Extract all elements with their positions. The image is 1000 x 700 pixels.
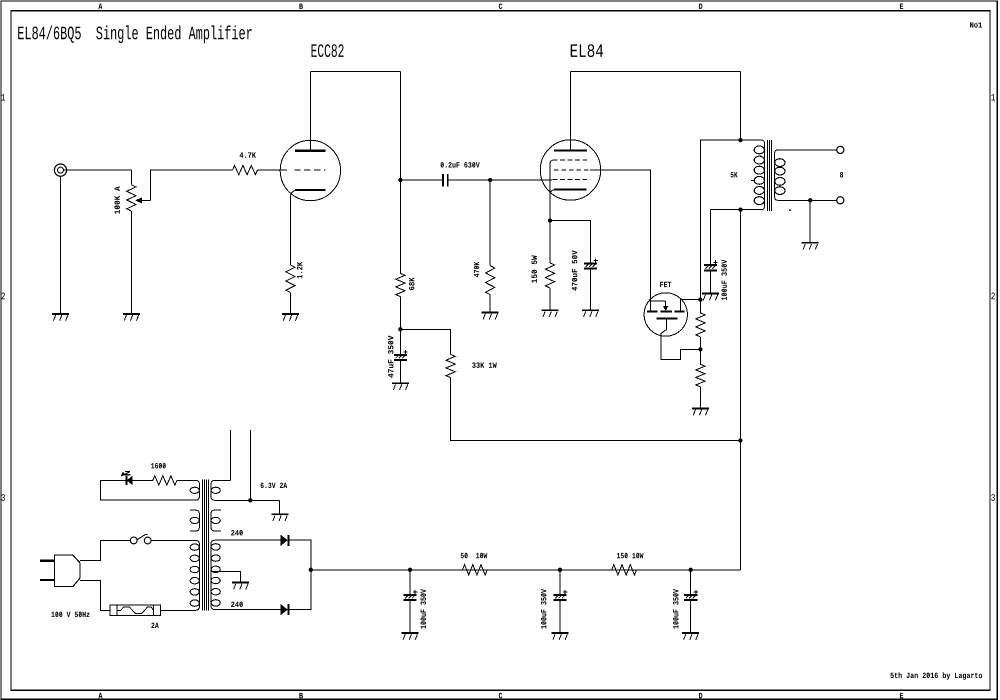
wire 470K top — [489, 180, 491, 266]
unused winding left bracket — [190, 510, 199, 531]
fuse 2A — [110, 605, 160, 616]
wire source node to lower resistor — [699, 349, 701, 364]
OPT primary winding loops — [754, 146, 764, 205]
wire 68K to decouple node — [399, 297, 401, 330]
wire filter cap 1 to ground — [409, 601, 411, 633]
wire EL84 cathode lead curve — [550, 190, 554, 194]
wire 1.2K to ground — [289, 293, 291, 314]
OPT primary tap tick — [751, 180, 755, 182]
capacitor 100uF 350V (filter 3) — [684, 590, 698, 600]
pilot circuit left rail — [101, 480, 191, 500]
wire fuse to PT primary — [160, 609, 195, 611]
transistor FET — [644, 293, 687, 336]
wire secondary to ground — [809, 200, 811, 243]
label 470uF 50V — [572, 250, 578, 291]
wire HV center tap — [211, 571, 241, 582]
wire heater lead A up — [230, 430, 232, 480]
heater winding 6.3V bracket — [211, 480, 280, 500]
label 6.3V 2A — [261, 483, 288, 489]
wire ECC82 anode up — [309, 72, 311, 151]
PT core — [202, 480, 208, 611]
PT primary winding loops — [190, 544, 199, 606]
wire EL84 anode up — [570, 72, 572, 151]
EL84 g2 (dashed) — [554, 169, 590, 171]
wire 100uF to ground — [709, 271, 711, 293]
wire cathode node to 470uF — [550, 221, 591, 264]
wire node to 47uF — [399, 329, 401, 354]
ground (pot) — [123, 314, 140, 321]
wire 68K top — [399, 180, 401, 273]
potentiometer 100K A — [127, 185, 151, 211]
pilot winding loop — [190, 487, 199, 493]
ground (jack) — [52, 314, 69, 321]
wire FET source path — [661, 319, 700, 360]
wire ECC82 cathode lead — [290, 190, 295, 265]
resistor FET lower — [696, 364, 705, 387]
label 5K — [731, 172, 738, 177]
wire pot bottom to ground — [130, 211, 132, 314]
node: filter cap 1 — [408, 568, 412, 572]
title — [18, 25, 252, 43]
ground (filter 3) — [682, 633, 699, 640]
label 100uF 350V (filter 1) — [421, 589, 427, 629]
wire B+ rail — [311, 569, 741, 571]
label 240 top — [231, 530, 243, 536]
ECC82 plate — [295, 149, 326, 151]
wire wiper up and right to 4.7K — [151, 170, 233, 200]
resistor 1.2K — [286, 265, 295, 293]
wire jack to ground — [60, 176, 62, 314]
wire anode top run right — [571, 71, 741, 73]
node: filter cap 2 — [558, 568, 562, 572]
date note — [890, 672, 982, 680]
label 100 V 50Hz — [51, 612, 89, 618]
wire heater to ground — [279, 500, 281, 514]
label EL84 — [571, 44, 603, 57]
ground (150 5W) — [542, 310, 559, 317]
resistor FET upper — [696, 313, 705, 337]
wire plug top to switch — [80, 540, 130, 560]
resistor 1600 — [153, 476, 177, 485]
capacitor 100uF 350V (B+) — [704, 260, 718, 270]
wire jack to pot top — [64, 169, 132, 171]
ECC82 grid (dashed) — [294, 169, 325, 171]
capacitor 0.2uF 630V — [443, 174, 448, 186]
wire filter cap 3 to ground — [690, 601, 692, 633]
capacitor 100uF 350V (filter 1) — [404, 590, 418, 600]
wire 150 5W to ground — [549, 288, 551, 310]
wire 470K to ground — [489, 295, 491, 313]
wire decouple node to 33K — [400, 329, 450, 354]
wire drain node to B+ (OPT top) — [700, 140, 740, 300]
label 47uF 350V — [388, 336, 394, 378]
HV winding loops — [211, 544, 220, 606]
capacitor 470uF 50V — [584, 259, 598, 269]
heater winding loop — [211, 487, 220, 493]
wire lower resistor to ground — [699, 387, 701, 409]
wire heater lead B up — [249, 430, 251, 500]
LED pilot — [121, 472, 132, 485]
wire LED to 1600 — [132, 479, 153, 481]
wire node to 0.2uF — [400, 179, 442, 181]
wire drain node upper lead — [699, 300, 701, 313]
sheet number No1 — [970, 22, 982, 27]
ground (HV center tap) — [232, 583, 249, 590]
label ECC82 — [312, 44, 344, 57]
ground (filter 2) — [552, 633, 569, 640]
wire 33K down to B+ feed — [451, 378, 741, 441]
wire down to coupling node — [399, 72, 401, 181]
capacitor 47uF 350V — [394, 350, 408, 360]
ground (filter 1) — [402, 633, 419, 640]
resistor 150 5W — [545, 263, 554, 288]
label 4.7K — [240, 152, 256, 157]
ECC82 cathode — [295, 189, 326, 191]
label 150 10W — [617, 553, 644, 559]
label 33K 1W — [472, 362, 497, 368]
ground (1.2K) — [282, 314, 299, 321]
label FET — [660, 282, 671, 287]
switch SW — [130, 534, 151, 544]
node: secondary ground node — [808, 198, 812, 202]
grid numbers left — [1, 94, 5, 501]
label 1600 — [151, 463, 166, 469]
label 100uF 350V (filter 2) — [541, 589, 547, 629]
node: ECC82 plate node — [398, 178, 402, 182]
ground (100uF B+) — [702, 294, 719, 301]
tube EL84 envelope — [540, 140, 600, 200]
node: heater tap — [248, 498, 252, 502]
node: B+ feed tap — [738, 438, 742, 442]
wire rail to filter cap 1 — [409, 570, 411, 595]
ground (47uF) — [392, 383, 409, 390]
resistor 68K — [396, 273, 405, 296]
wire g3 tie to cathode — [550, 160, 554, 221]
node: decoupling node — [398, 327, 402, 331]
HV winding bracket — [211, 540, 281, 609]
node: filter cap 3 — [689, 568, 693, 572]
label 470K — [474, 262, 480, 277]
wire to source node — [699, 337, 701, 350]
grid letters bottom — [98, 693, 903, 699]
wire cathode node to 150 5W — [549, 221, 551, 263]
label 100uF 350V (B+) — [721, 260, 727, 301]
node: FET source node — [698, 347, 702, 351]
ground (FET) — [692, 408, 709, 415]
node: FET drain node — [698, 297, 702, 301]
ground (heater) — [271, 514, 288, 521]
resistor 470K — [486, 266, 495, 295]
wire OPT bottom to 100uF — [709, 210, 711, 265]
output terminal top — [837, 146, 844, 153]
node: cathode node — [548, 218, 552, 222]
wire rail to filter cap 2 — [559, 570, 561, 595]
wire FET drain to node — [681, 300, 701, 312]
capacitor 100uF 350V (filter 2) — [553, 590, 567, 600]
EL84 plate — [554, 149, 587, 151]
label 8 — [840, 172, 843, 178]
unused winding right loop — [211, 517, 220, 523]
label 0.2uF 630V — [441, 162, 480, 168]
resistor 4.7K — [233, 166, 258, 175]
label 150 5W — [532, 255, 538, 283]
wire down to OPT primary top — [740, 72, 742, 141]
input jack J1 — [54, 164, 66, 176]
wire filter cap 2 to ground — [559, 601, 561, 633]
OPT phase dot — [789, 209, 791, 211]
node: rectifier output — [309, 568, 313, 572]
wire anode top run right — [310, 71, 400, 73]
diode D1 — [281, 535, 289, 546]
grid letters top — [98, 3, 903, 9]
wire D2 to rectifier node — [289, 570, 310, 610]
EL84 g3 (dashed) — [553, 159, 587, 161]
wire 470uF to ground — [590, 270, 592, 311]
unused winding left loop — [190, 517, 199, 523]
label 2A — [151, 623, 158, 628]
label 50 10W — [461, 553, 488, 559]
OPT core — [767, 140, 771, 211]
resistor 150 10W — [612, 565, 637, 575]
label 1.2K — [297, 262, 302, 279]
pilot winding bracket — [177, 480, 200, 500]
ground (secondary) — [802, 243, 819, 250]
node: OPT primary top — [738, 138, 742, 142]
wire g2 to FET gate — [590, 170, 651, 301]
transformer PT primary bracket — [151, 540, 199, 610]
tube ECC82 envelope — [280, 140, 340, 200]
wire D1 to rectifier node — [289, 540, 310, 570]
mains plug — [40, 555, 80, 587]
EL84 cathode — [554, 188, 587, 190]
wire rail to filter cap 3 — [690, 570, 692, 595]
wire pot top lead — [130, 170, 132, 185]
ground (470uF) — [582, 310, 599, 317]
EL84 g1 (dashed) — [553, 179, 587, 181]
wire 47uF to ground — [399, 361, 401, 383]
OPT secondary winding loops — [775, 159, 785, 195]
transformer OPT primary bracket — [710, 140, 764, 210]
wire 0.2uF to grid node — [448, 179, 490, 181]
label 100K A — [114, 186, 120, 214]
diode D2 — [281, 604, 289, 615]
label 240 bottom — [231, 602, 243, 608]
OPT secondary bracket top lead — [775, 150, 837, 200]
wire switch to PT primary — [151, 539, 195, 541]
wire grid node to EL84 — [490, 179, 552, 181]
node: OPT primary bottom — [738, 207, 742, 211]
resistor 33K 1W — [446, 354, 455, 377]
wire plug bottom to fuse — [80, 580, 110, 610]
ground (470K) — [482, 313, 499, 320]
resistor 50 10W — [463, 565, 488, 575]
grid numbers right — [991, 94, 995, 501]
node: EL84 grid node — [488, 178, 492, 182]
output terminal bottom — [837, 197, 844, 204]
wire 4.7K to ECC82 grid — [258, 169, 288, 171]
wire B+ riser — [739, 210, 741, 570]
label 68K — [409, 277, 415, 290]
label 100uF 350V (filter 3) — [673, 589, 679, 629]
unused winding right bracket — [211, 510, 221, 531]
